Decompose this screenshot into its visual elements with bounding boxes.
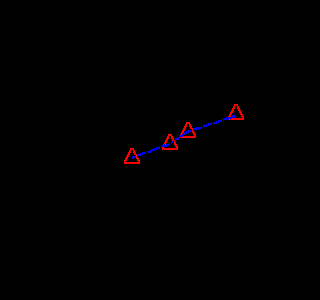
blue dashed trend line through the four data points [132, 115, 236, 159]
data marker T4: red open triangle centered near (236,112) [228, 104, 244, 120]
data marker T2: red open triangle centered near (170,142) [162, 134, 178, 150]
data marker T1: red open triangle centered near (132,156) [124, 148, 140, 164]
data marker T3: red open triangle centered near (188,130) [180, 122, 196, 138]
